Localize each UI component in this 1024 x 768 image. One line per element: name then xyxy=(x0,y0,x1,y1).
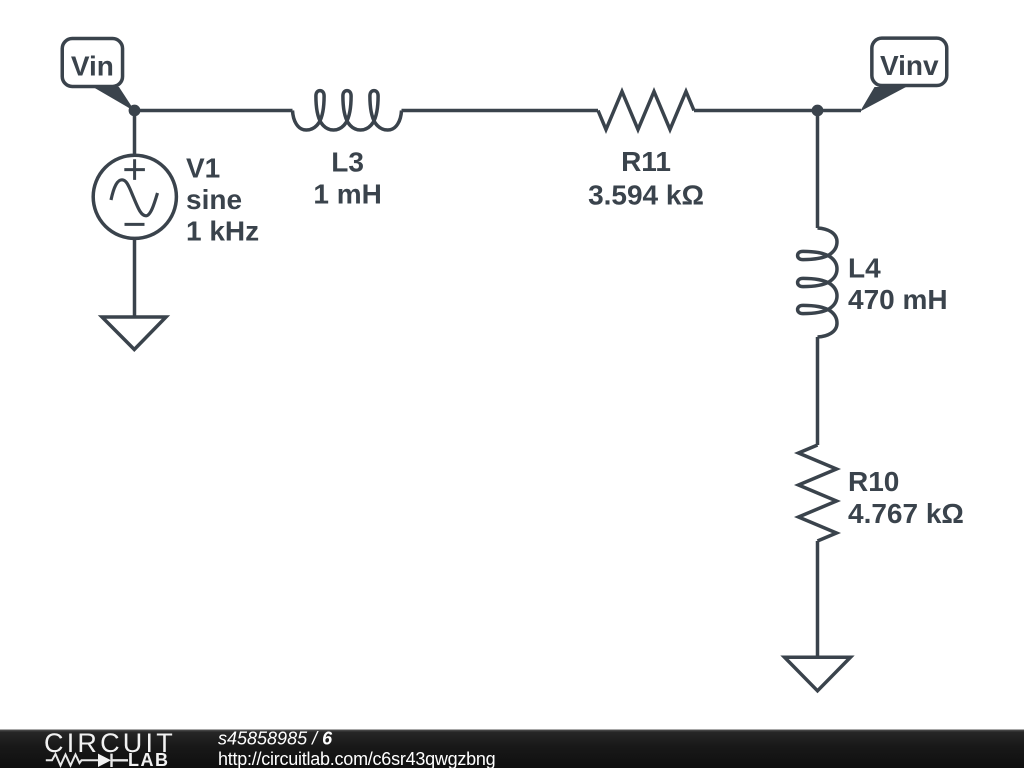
svg-text:LAB: LAB xyxy=(128,750,170,768)
svg-text:L4: L4 xyxy=(848,252,881,283)
voltage source V1 xyxy=(93,155,176,238)
wire L4 to R10 xyxy=(816,337,820,445)
wire R10 to ground xyxy=(816,541,820,658)
label R10 xyxy=(848,466,964,529)
svg-text:3.594 kΩ: 3.594 kΩ xyxy=(588,180,704,211)
svg-text:470 mH: 470 mH xyxy=(848,284,948,315)
svg-text:s45858985 / 6: s45858985 / 6 xyxy=(218,729,333,749)
wire L3 to R11 xyxy=(402,109,599,113)
wire node Vinv down to L4 xyxy=(816,111,820,229)
wire node Vin down to V1 xyxy=(133,111,137,156)
wire V1 to ground xyxy=(133,239,137,318)
footer bar xyxy=(0,730,1024,768)
logo resistor squiggle xyxy=(46,754,98,766)
svg-text:sine: sine xyxy=(186,184,242,215)
svg-text:R10: R10 xyxy=(848,466,899,497)
svg-text:Vinv: Vinv xyxy=(880,50,939,81)
logo diode xyxy=(98,754,111,767)
label L4 xyxy=(848,252,948,315)
node flag Vin xyxy=(62,39,135,112)
wire top-left segment (node to L3) xyxy=(135,109,293,113)
svg-text:http://circuitlab.com/c6sr43qw: http://circuitlab.com/c6sr43qwgzbng xyxy=(218,749,495,768)
resistor R10 xyxy=(799,445,837,541)
inductor L3 xyxy=(293,91,402,130)
ground (below V1) xyxy=(102,317,166,350)
label V1 xyxy=(186,152,259,246)
svg-text:L3: L3 xyxy=(331,147,364,178)
resistor R11 xyxy=(598,92,694,130)
svg-text:1 mH: 1 mH xyxy=(313,179,381,210)
svg-text:V1: V1 xyxy=(186,152,220,183)
wire R11 to Vinv tail xyxy=(694,109,861,113)
svg-text:4.767 kΩ: 4.767 kΩ xyxy=(848,498,964,529)
node flag Vinv xyxy=(860,38,947,111)
label L3 xyxy=(313,147,381,210)
label R11 xyxy=(588,146,704,211)
svg-text:1 kHz: 1 kHz xyxy=(186,215,259,246)
node junction A (Vin node) xyxy=(129,105,141,117)
inductor L4 xyxy=(798,228,837,337)
svg-text:R11: R11 xyxy=(621,146,671,177)
svg-text:Vin: Vin xyxy=(71,51,114,82)
ground (below R10) xyxy=(785,657,851,691)
node junction B (Vinv node) xyxy=(812,105,824,117)
